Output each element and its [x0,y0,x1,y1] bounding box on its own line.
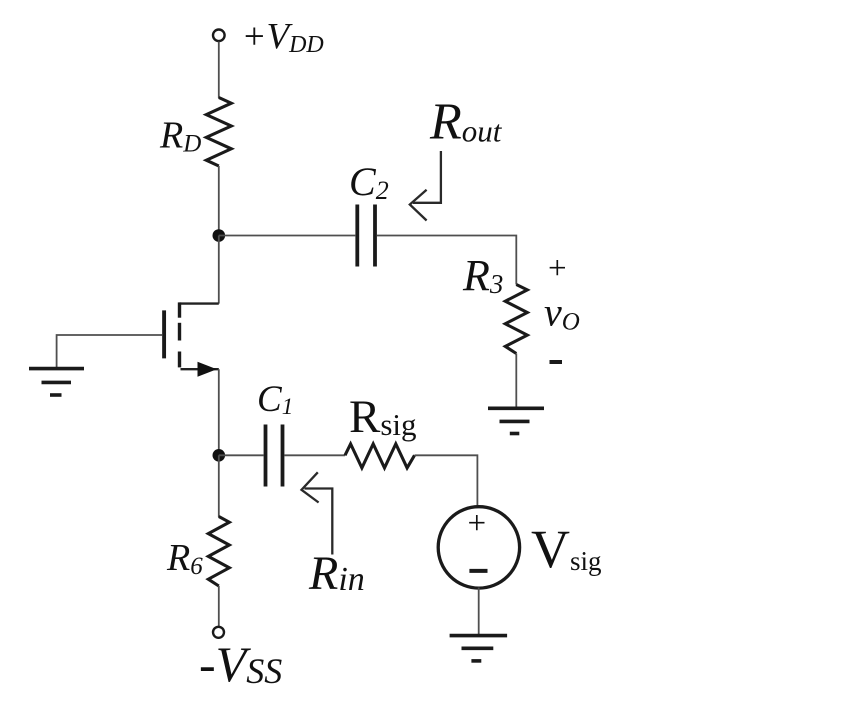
wire RD to node A [218,166,220,236]
svg-text:Rout: Rout [429,94,503,151]
terminal +VDD [213,30,225,42]
wire node A down to drain [218,236,220,304]
arrow Rout pointer [410,151,441,221]
svg-text:C2: C2 [349,159,389,205]
label - inside Vsig [469,569,487,573]
transistor Q1 channel (dashed) [178,302,181,367]
transistor Q1 gate bar [162,310,166,358]
arrow Rin pointer [302,472,333,554]
wire R6 to terminal [218,586,220,627]
svg-text:vO: vO [544,290,580,336]
wire node B to C1 [219,454,264,456]
svg-text:Vsig: Vsig [531,519,602,579]
capacitor C1 [266,425,283,487]
wire Rsig to Vsig [415,455,478,507]
wire R3 to ground [515,354,517,409]
source Vsig circle [438,507,519,588]
wire node B to R6 [218,455,220,517]
wire Vsig to ground [478,588,480,636]
wire gate [57,335,163,369]
node A (drain node) [213,229,226,242]
ground (R3) [488,408,544,433]
wire C1 to Rsig [285,454,346,456]
resistor RD [206,98,231,167]
wire source to node B [218,369,220,455]
svg-text:Rsig: Rsig [349,391,417,443]
transistor Q1 source arrow [198,362,217,377]
wire node A to C2 [219,235,355,237]
resistor R6 [208,517,229,587]
wire VDD to RD [218,42,220,99]
svg-text:Rin: Rin [308,547,365,600]
terminal -VSS [213,627,224,638]
capacitor C2 [357,205,375,267]
ground (gate) [29,369,84,395]
svg-text:+: + [468,506,487,542]
label - (vo) [550,360,563,364]
svg-text:R6: R6 [166,537,203,580]
transistor Q1 drain lead [180,302,219,304]
resistor Rsig [345,444,415,468]
svg-text:C1: C1 [257,379,293,420]
svg-text:R3: R3 [462,251,503,300]
node B (source node) [213,449,226,462]
svg-text:RD: RD [159,115,201,158]
ground (Vsig) [450,636,508,661]
wire C2 to corner [377,236,516,285]
resistor R3 [505,285,527,354]
svg-text:+VDD: +VDD [242,17,324,59]
svg-text:-VSS: -VSS [199,636,282,692]
transistor Q1 source lead [181,368,219,370]
svg-text:+: + [548,251,567,287]
